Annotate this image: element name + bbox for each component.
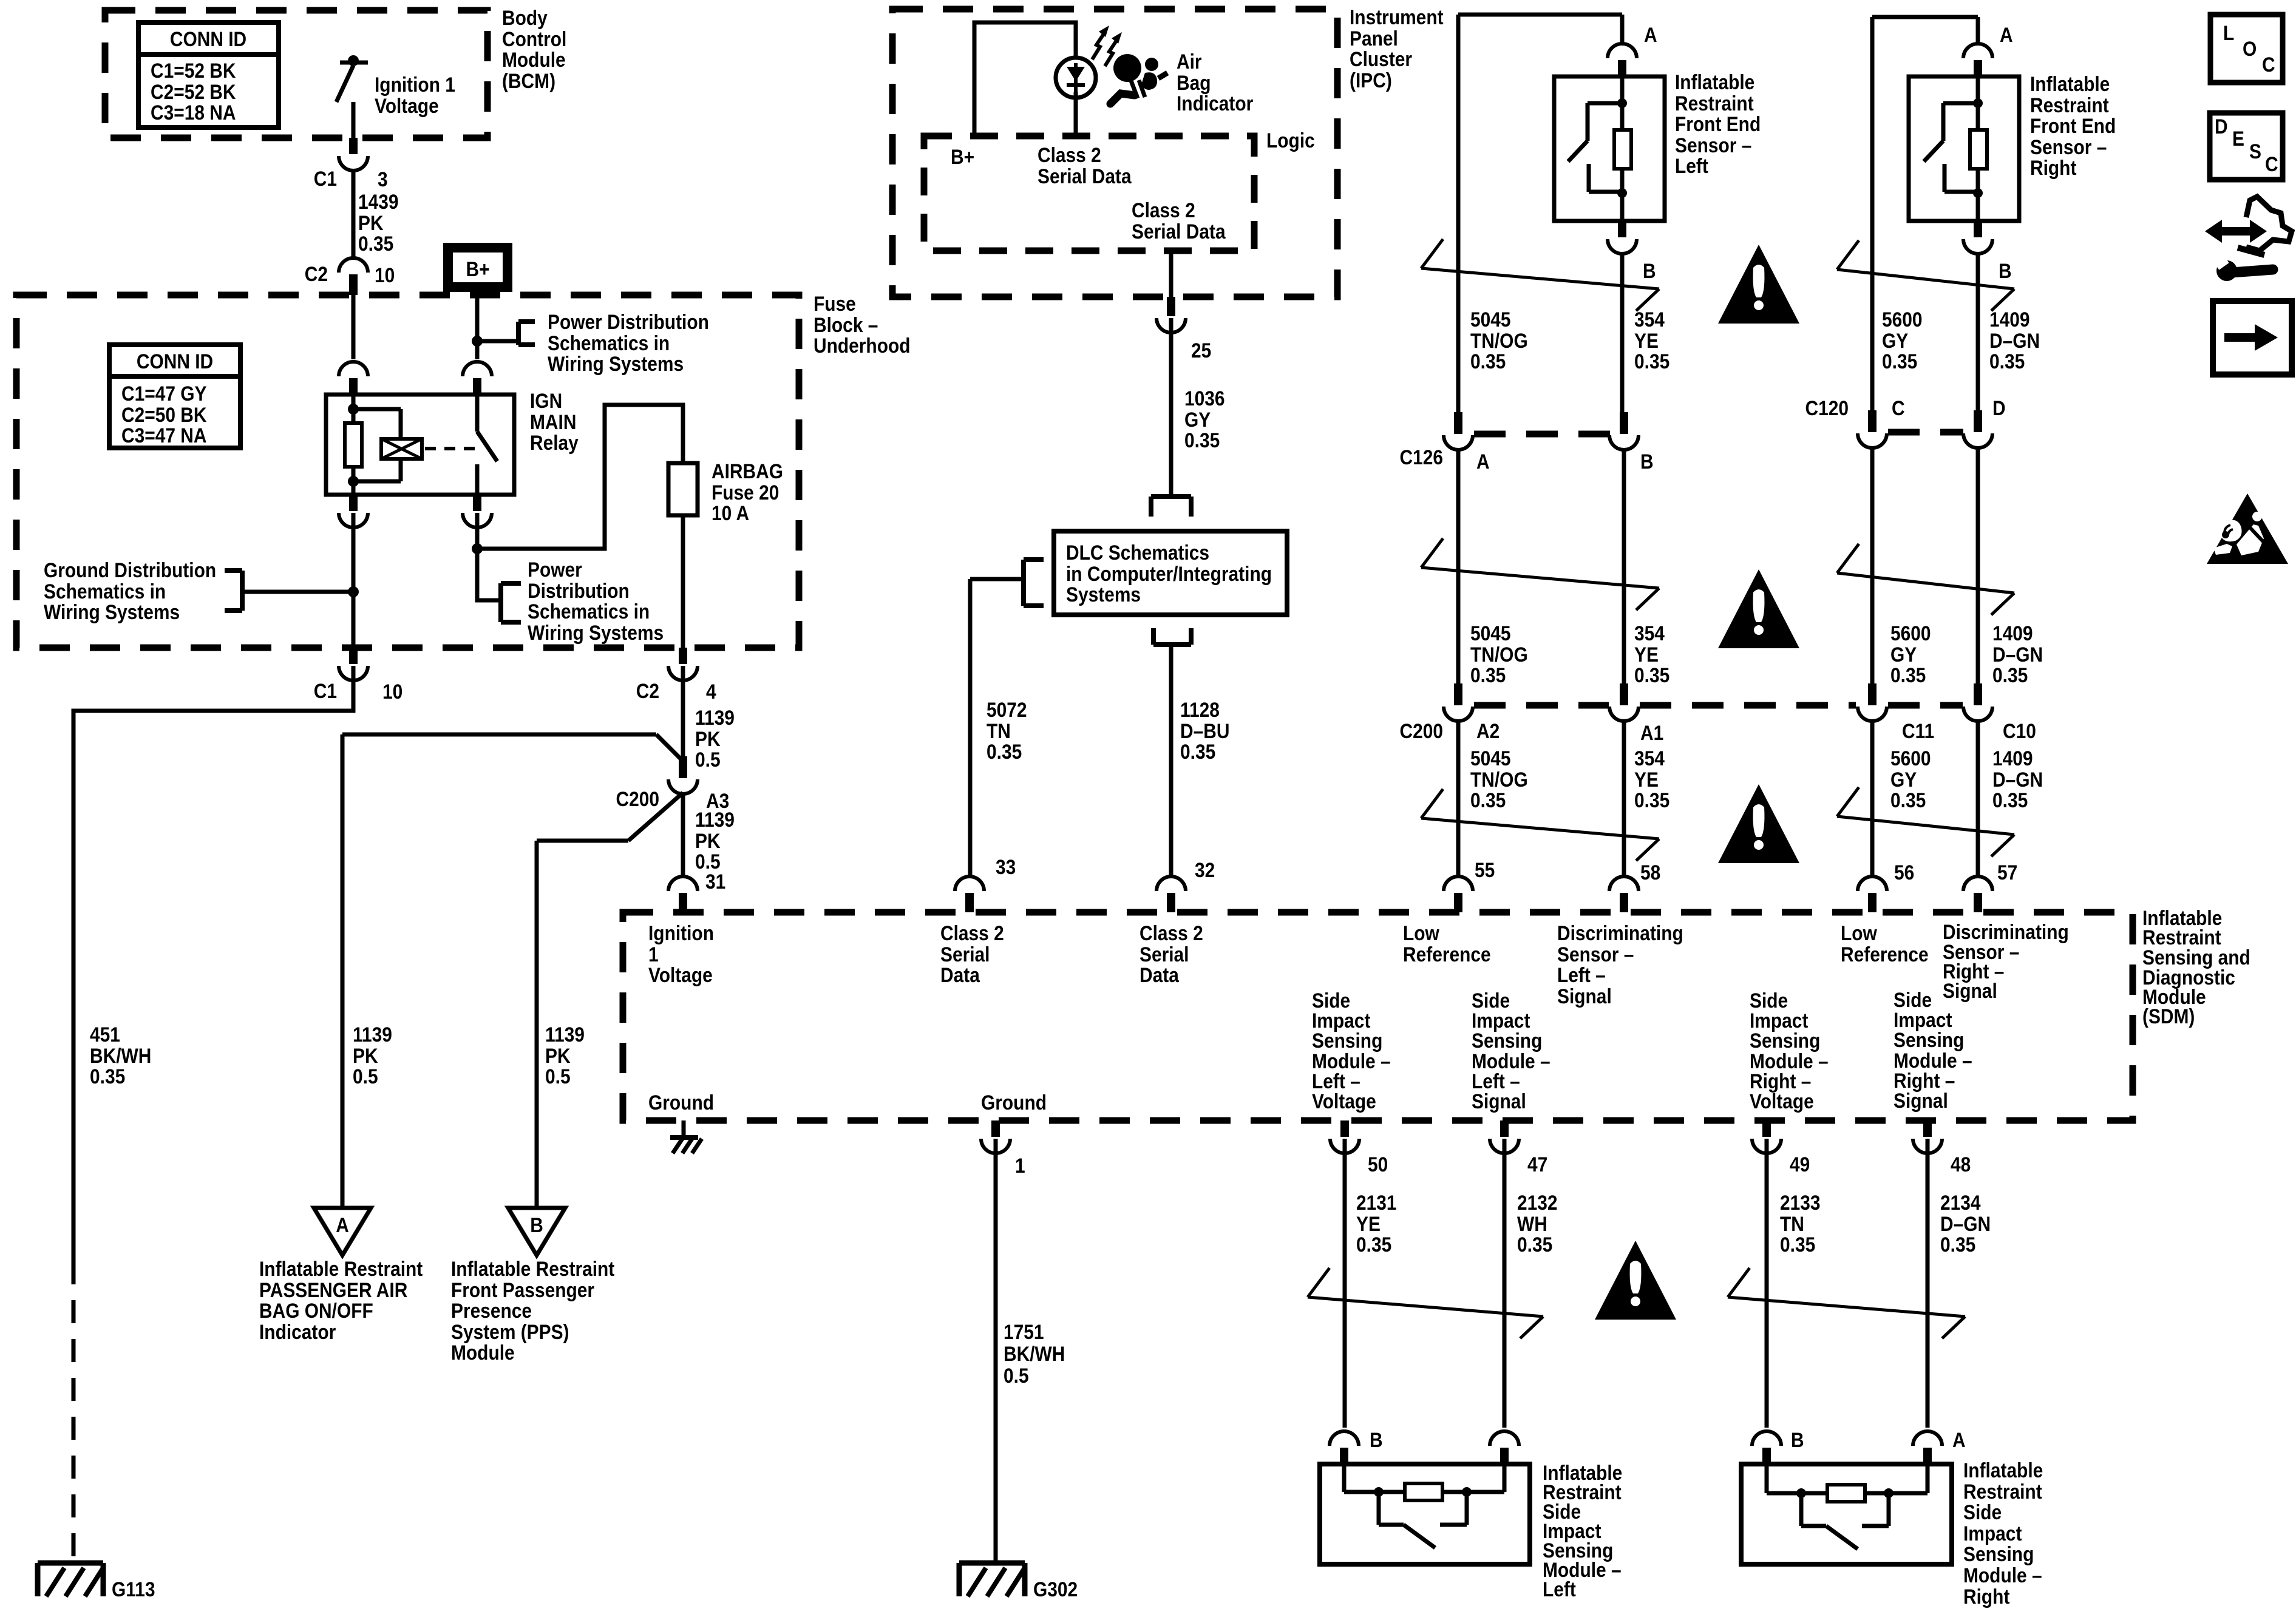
- value label 2132 WH 0.35: [1517, 1191, 1558, 1256]
- svg-text:Impact: Impact: [1963, 1522, 2022, 1545]
- relay switch contacts: [477, 395, 497, 495]
- svg-text:Power Distribution: Power Distribution: [548, 310, 709, 333]
- svg-text:in Computer/Integrating: in Computer/Integrating: [1066, 562, 1272, 585]
- svg-text:A: A: [2000, 23, 2013, 46]
- svg-text:Low: Low: [1841, 921, 1877, 944]
- svg-text:Cluster: Cluster: [1350, 47, 1412, 70]
- power symbol B+: [448, 248, 508, 287]
- value label 354 YE 0.35 (upper): [1634, 308, 1669, 373]
- label Air Bag Indicator: [1177, 50, 1253, 115]
- svg-text:Left: Left: [1543, 1578, 1576, 1601]
- value label 2133 TN 0.35: [1780, 1191, 1821, 1256]
- wire 1139 PK (pin4 to C200): [681, 666, 685, 760]
- svg-text:GY: GY: [1882, 329, 1908, 352]
- relay coil resistor: [345, 395, 362, 495]
- wire 5600 lower: [1870, 720, 1875, 878]
- svg-text:L: L: [2223, 21, 2234, 44]
- svg-text:C2=52 BK: C2=52 BK: [151, 80, 236, 103]
- svg-text:TN: TN: [987, 719, 1011, 742]
- svg-text:1139: 1139: [353, 1023, 392, 1046]
- table CONN ID (BCM): [138, 22, 279, 127]
- svg-text:Class 2: Class 2: [940, 921, 1004, 944]
- svg-text:System (PPS): System (PPS): [451, 1320, 569, 1343]
- pin label A2: [1476, 719, 1500, 742]
- svg-text:354: 354: [1634, 747, 1665, 770]
- pin label 31: [705, 870, 725, 893]
- wire right front sensor loop: [1872, 17, 1978, 415]
- svg-text:MAIN: MAIN: [530, 410, 576, 433]
- svg-text:Body: Body: [502, 6, 548, 29]
- connector SDM pin 48: [1913, 1120, 1942, 1153]
- svg-text:Restraint: Restraint: [1963, 1480, 2042, 1503]
- svg-text:(SDM): (SDM): [2142, 1005, 2195, 1028]
- svg-text:Bag: Bag: [1177, 71, 1211, 94]
- svg-text:C2: C2: [305, 262, 328, 285]
- svg-text:BAG ON/OFF: BAG ON/OFF: [259, 1299, 373, 1322]
- wire relay coil to C1-10: [352, 513, 356, 648]
- svg-text:48: 48: [1951, 1153, 1971, 1176]
- label AIRBAG Fuse 20 10 A: [712, 459, 783, 524]
- svg-text:2133: 2133: [1780, 1191, 1821, 1214]
- wire class2 inside IPC: [1169, 251, 1173, 297]
- svg-text:Restraint: Restraint: [2030, 93, 2109, 117]
- twisted pair marker (bottom right): [1728, 1268, 1965, 1338]
- twisted pair marker (left pair upper): [1421, 239, 1659, 311]
- svg-text:0.35: 0.35: [1470, 788, 1506, 812]
- svg-text:YE: YE: [1634, 768, 1659, 791]
- svg-text:Serial Data: Serial Data: [1132, 220, 1226, 243]
- label C126: [1399, 446, 1443, 469]
- twisted pair marker (right pair middle): [1837, 544, 2014, 615]
- svg-text:1409: 1409: [1989, 308, 2030, 331]
- svg-text:Restraint: Restraint: [1675, 92, 1754, 115]
- wire 1409 middle: [1976, 447, 1980, 688]
- svg-text:0.35: 0.35: [1780, 1233, 1815, 1256]
- wire SDM pin 49 to module: [1765, 1139, 1769, 1428]
- connector right sensor pin A: [1963, 44, 1992, 76]
- value label 1139 PK 0.5 (lower): [695, 808, 735, 873]
- svg-text:Air: Air: [1177, 50, 1202, 73]
- connector C1 pin 3 (BCM): [339, 138, 368, 171]
- svg-text:IGN: IGN: [530, 389, 562, 412]
- svg-text:31: 31: [705, 870, 725, 893]
- wire 451 BK/WH: [73, 666, 353, 1261]
- svg-text:Indicator: Indicator: [1177, 92, 1253, 115]
- connector relay switch bottom: [463, 495, 492, 527]
- pin label 49: [1790, 1153, 1810, 1176]
- svg-text:Voltage: Voltage: [648, 963, 713, 986]
- svg-text:Inflatable: Inflatable: [1963, 1459, 2043, 1482]
- svg-text:0.35: 0.35: [1180, 740, 1215, 763]
- svg-text:PK: PK: [358, 211, 384, 234]
- connector left sensor pin B: [1608, 221, 1637, 254]
- svg-text:0.35: 0.35: [1634, 350, 1669, 373]
- pin label B (left sensor): [1643, 259, 1656, 282]
- svg-text:Front End: Front End: [2030, 114, 2116, 137]
- svg-text:3: 3: [378, 168, 388, 191]
- connector IPC pin 25: [1156, 297, 1186, 333]
- connector C1 pin 10 (fuse block bottom): [339, 648, 368, 680]
- svg-text:C10: C10: [2003, 719, 2036, 742]
- connector C200 pin C10: [1963, 683, 1992, 721]
- wire 5600 middle: [1870, 447, 1875, 688]
- svg-text:G113: G113: [112, 1578, 155, 1601]
- svg-text:4: 4: [706, 680, 716, 703]
- svg-text:Ignition: Ignition: [648, 921, 714, 944]
- value label 1139 PK 0.5 (A): [353, 1023, 392, 1088]
- svg-text:D–BU: D–BU: [1180, 719, 1229, 742]
- label Class 2 Serial Data (lower): [1132, 198, 1226, 243]
- fuse F1 AIRBAG Fuse 20 10A: [668, 463, 698, 515]
- svg-text:TN/OG: TN/OG: [1470, 768, 1528, 791]
- value label 5045 TN/OG 0.35 (middle): [1470, 622, 1528, 686]
- pin function Side Impact Sensing Module Right Signal: [1894, 988, 1972, 1112]
- svg-text:Indicator: Indicator: [259, 1320, 336, 1343]
- svg-text:0.35: 0.35: [1882, 350, 1917, 373]
- svg-text:PK: PK: [545, 1044, 571, 1067]
- label Logic: [1266, 129, 1315, 152]
- connector SDM pin 31: [668, 876, 698, 912]
- svg-text:5600: 5600: [1890, 747, 1931, 770]
- wire C2-10 to relay: [352, 295, 356, 359]
- svg-text:A: A: [336, 1213, 349, 1236]
- pin label B (right module): [1791, 1428, 1804, 1451]
- connector row C200 (dashed): [1474, 702, 1963, 709]
- svg-text:TN/OG: TN/OG: [1470, 643, 1528, 666]
- value label 1139 PK 0.5 (upper): [695, 706, 735, 771]
- bracket power distribution (top): [518, 322, 535, 345]
- connector right sensor pin B: [1963, 221, 1992, 254]
- connector left module pin (right): [1490, 1431, 1519, 1464]
- connector left sensor pin A: [1608, 44, 1637, 76]
- label C200: [1399, 719, 1443, 742]
- wire SDM pin 50 to module: [1343, 1139, 1347, 1428]
- label Inflatable Restraint Side Impact Sensing Module - Left: [1543, 1461, 1622, 1601]
- svg-text:GY: GY: [1890, 643, 1917, 666]
- connector SDM pin 32: [1156, 876, 1186, 912]
- relay actuation dashed link: [425, 447, 475, 450]
- wire 1409 lower: [1976, 720, 1980, 878]
- svg-text:Inflatable: Inflatable: [1675, 70, 1754, 93]
- svg-text:Module: Module: [502, 48, 566, 71]
- svg-text:Front Passenger: Front Passenger: [451, 1278, 594, 1301]
- svg-text:YE: YE: [1634, 329, 1659, 352]
- svg-text:Side: Side: [1963, 1500, 2002, 1524]
- svg-text:1128: 1128: [1180, 698, 1220, 721]
- left sensor switch branch: [1568, 103, 1622, 192]
- svg-text:451: 451: [90, 1023, 120, 1046]
- svg-text:Systems: Systems: [1066, 583, 1141, 606]
- twisted pair marker (bottom left): [1308, 1268, 1543, 1338]
- svg-text:Reference: Reference: [1403, 943, 1491, 966]
- junction relay output: [472, 543, 483, 554]
- svg-text:33: 33: [996, 855, 1016, 878]
- svg-text:Class 2: Class 2: [1132, 198, 1195, 222]
- svg-text:B+: B+: [466, 257, 489, 280]
- svg-text:5045: 5045: [1470, 622, 1511, 645]
- svg-text:Right: Right: [1963, 1585, 2010, 1608]
- svg-text:BK/WH: BK/WH: [90, 1044, 151, 1067]
- connector C200 pin A2: [1444, 683, 1473, 721]
- svg-text:Sensor –: Sensor –: [2030, 135, 2107, 158]
- svg-text:AIRBAG: AIRBAG: [712, 459, 783, 483]
- icon airbag caution triangle: [2207, 493, 2288, 564]
- svg-text:Class 2: Class 2: [1140, 921, 1203, 944]
- svg-text:5072: 5072: [987, 698, 1027, 721]
- wire branch to PPS module: [537, 793, 683, 841]
- svg-text:TN: TN: [1780, 1212, 1804, 1235]
- connector SDM pin 49: [1752, 1120, 1781, 1153]
- module box Fuse Block - Underhood (dashed): [16, 295, 799, 648]
- wire to triangle B: [535, 841, 539, 1208]
- icon LOC box: [2210, 15, 2283, 83]
- svg-text:(IPC): (IPC): [1350, 69, 1392, 92]
- svg-text:Ground: Ground: [981, 1091, 1047, 1114]
- svg-text:10: 10: [375, 263, 395, 286]
- svg-text:1139: 1139: [695, 706, 735, 729]
- svg-text:32: 32: [1195, 858, 1215, 881]
- pin label D (C120): [1992, 396, 2006, 419]
- label Class 2 Serial Data (top): [1038, 143, 1132, 188]
- pin function Low Reference (55): [1403, 921, 1491, 966]
- svg-text:A1: A1: [1640, 721, 1663, 744]
- value label 1751 BK/WH 0.5: [1004, 1320, 1065, 1387]
- svg-text:Left –: Left –: [1557, 963, 1606, 986]
- svg-text:Sensor –: Sensor –: [1675, 134, 1751, 157]
- icon adjust/wrench (double arrow with hand and wrench): [2205, 197, 2292, 281]
- wire SDM pin 48 to module: [1926, 1139, 1930, 1428]
- svg-text:0.35: 0.35: [1470, 350, 1506, 373]
- svg-text:CONN ID: CONN ID: [170, 27, 246, 50]
- svg-text:GY: GY: [1890, 768, 1917, 791]
- svg-text:Voltage: Voltage: [1312, 1090, 1376, 1113]
- sensor box front end right: [1909, 76, 2019, 221]
- svg-text:D–GN: D–GN: [1940, 1212, 1991, 1235]
- svg-text:Wiring Systems: Wiring Systems: [528, 621, 664, 644]
- junction on B+ wire: [472, 336, 483, 347]
- svg-text:Signal: Signal: [1472, 1090, 1526, 1113]
- connector SDM pin 50: [1330, 1120, 1359, 1153]
- svg-text:D–GN: D–GN: [1992, 643, 2043, 666]
- pin label 25: [1191, 339, 1211, 362]
- svg-text:C1: C1: [314, 679, 337, 702]
- svg-text:Sensing: Sensing: [1963, 1542, 2034, 1565]
- svg-text:50: 50: [1368, 1153, 1388, 1176]
- module box side impact left: [1320, 1464, 1530, 1564]
- pin label C1 3: [314, 167, 388, 191]
- wire left front sensor loop: [1458, 15, 1622, 417]
- connector C126 pin B: [1609, 412, 1639, 450]
- svg-text:0.35: 0.35: [358, 232, 393, 255]
- pin label 47: [1527, 1153, 1547, 1176]
- icon DESC box: [2210, 113, 2283, 180]
- svg-text:1139: 1139: [695, 808, 735, 831]
- value label 5600 GY 0.35 (lower): [1890, 747, 1931, 812]
- svg-text:58: 58: [1640, 861, 1660, 884]
- warning triangle 1: [1718, 245, 1799, 324]
- svg-text:Sensing: Sensing: [1472, 1029, 1542, 1052]
- svg-text:Presence: Presence: [451, 1299, 532, 1322]
- connector right module pin B: [1752, 1431, 1781, 1464]
- svg-text:PASSENGER AIR: PASSENGER AIR: [259, 1278, 407, 1301]
- svg-text:5600: 5600: [1882, 308, 1923, 331]
- svg-text:1: 1: [648, 943, 659, 966]
- pin label 1: [1015, 1154, 1025, 1177]
- svg-text:C: C: [2265, 152, 2278, 175]
- pin function Ground (internal): [648, 1091, 714, 1114]
- svg-text:0.35: 0.35: [1890, 788, 1926, 812]
- svg-text:0.5: 0.5: [545, 1065, 571, 1088]
- twisted pair marker (left pair lower): [1421, 789, 1659, 861]
- value label 5045 TN/OG 0.35 (lower): [1470, 747, 1528, 812]
- pin label B (right sensor): [1999, 259, 2012, 282]
- svg-text:10: 10: [382, 680, 402, 703]
- pin function Side Impact Sensing Module Left Voltage: [1312, 989, 1391, 1113]
- svg-text:D–GN: D–GN: [1989, 329, 2040, 352]
- svg-text:B+: B+: [951, 145, 974, 168]
- sensor box front end left: [1554, 76, 1665, 221]
- connector C200 pin C11: [1858, 683, 1887, 721]
- svg-text:0.35: 0.35: [1634, 788, 1669, 812]
- wire branch to passenger airbag indicator: [342, 734, 683, 761]
- pin function Side Impact Sensing Module Right Voltage: [1750, 989, 1829, 1113]
- warning triangle 4: [1595, 1241, 1676, 1320]
- svg-text:354: 354: [1634, 308, 1665, 331]
- svg-text:Distribution: Distribution: [528, 579, 630, 602]
- pin label 32: [1195, 858, 1215, 881]
- right module switch branch: [1801, 1493, 1889, 1549]
- label Inflatable Restraint Side Impact Sensing Module - Right: [1963, 1459, 2043, 1608]
- svg-text:Panel: Panel: [1350, 27, 1398, 50]
- svg-text:C11: C11: [1902, 719, 1934, 742]
- svg-text:47: 47: [1527, 1153, 1547, 1176]
- pin label 55: [1475, 858, 1495, 881]
- svg-text:C1=47 GY: C1=47 GY: [121, 382, 207, 405]
- value label 1409 D-GN 0.35 (middle): [1992, 622, 2043, 686]
- svg-text:Signal: Signal: [1943, 979, 1997, 1002]
- value label 2134 D-GN 0.35: [1940, 1191, 1991, 1256]
- bracket ground distribution: [225, 571, 242, 611]
- svg-text:C2: C2: [636, 679, 659, 702]
- svg-text:Discriminating: Discriminating: [1557, 921, 1683, 944]
- svg-text:DLC Schematics: DLC Schematics: [1066, 541, 1209, 564]
- svg-text:1751: 1751: [1004, 1320, 1044, 1343]
- pin label C10: [2003, 719, 2036, 742]
- svg-text:0.35: 0.35: [987, 740, 1022, 763]
- value label 1409 D-GN 0.35 (lower): [1992, 747, 2043, 812]
- svg-text:1139: 1139: [545, 1023, 585, 1046]
- svg-text:Inflatable Restraint: Inflatable Restraint: [259, 1257, 423, 1280]
- connector C2 pin 10 (fuse block): [339, 258, 368, 295]
- connector row C126 (dashed): [1474, 431, 1610, 438]
- label G302: [1033, 1578, 1078, 1601]
- svg-text:56: 56: [1894, 861, 1914, 884]
- ground symbol (SDM internal): [670, 1120, 702, 1153]
- wire 1139 PK (C200 to SDM 31): [681, 793, 685, 878]
- relay solenoid (box with X): [381, 439, 422, 459]
- twisted pair marker (left pair middle): [1421, 538, 1659, 610]
- svg-text:1036: 1036: [1184, 387, 1225, 410]
- svg-text:B: B: [1791, 1428, 1804, 1451]
- svg-text:C200: C200: [1399, 719, 1443, 742]
- wire B+ to relay: [475, 292, 480, 359]
- svg-text:B: B: [1640, 450, 1654, 473]
- relay K1 IGN MAIN Relay box: [326, 395, 514, 495]
- svg-text:Left: Left: [1675, 154, 1708, 177]
- svg-text:Module –: Module –: [1963, 1564, 2042, 1587]
- svg-text:0.35: 0.35: [1184, 429, 1220, 452]
- svg-text:1: 1: [1015, 1154, 1025, 1177]
- svg-text:1409: 1409: [1992, 622, 2033, 645]
- pin function Ground (pin 1): [981, 1091, 1047, 1114]
- svg-text:Signal: Signal: [1894, 1089, 1948, 1112]
- connector SDM pin 55: [1444, 876, 1473, 912]
- svg-text:A: A: [1644, 23, 1657, 46]
- label IGN MAIN Relay: [530, 389, 579, 454]
- wire 1128 D-BU: [1169, 645, 1173, 878]
- svg-text:0.35: 0.35: [1940, 1233, 1975, 1256]
- svg-text:1439: 1439: [358, 190, 399, 213]
- pin label C (C120): [1892, 396, 1905, 419]
- svg-text:Block –: Block –: [813, 313, 878, 336]
- connector C2 pin 4 (fuse block bottom): [668, 648, 698, 680]
- pin label 33: [996, 855, 1016, 878]
- svg-text:Right: Right: [2030, 156, 2077, 179]
- off-page triangle A: [314, 1208, 371, 1255]
- connector row C120 (dashed): [1888, 429, 1963, 436]
- pin label 56: [1894, 861, 1914, 884]
- svg-text:Fuse 20: Fuse 20: [712, 481, 779, 504]
- left module resistor branch: [1344, 1464, 1504, 1500]
- wire to ground distribution ref: [242, 590, 353, 594]
- svg-text:Low: Low: [1403, 921, 1439, 944]
- value label 5072 TN 0.35: [987, 698, 1027, 763]
- svg-text:C2=50 BK: C2=50 BK: [121, 403, 206, 426]
- svg-text:BK/WH: BK/WH: [1004, 1342, 1065, 1365]
- svg-text:D: D: [2215, 115, 2228, 138]
- svg-text:C200: C200: [616, 787, 659, 810]
- pin label C2 10: [305, 262, 395, 286]
- connector left module pin B: [1330, 1431, 1359, 1464]
- connector right module pin A: [1913, 1431, 1942, 1464]
- right sensor resistor branch: [1970, 76, 1987, 221]
- pin label C200 A3: [616, 787, 729, 812]
- svg-text:0.35: 0.35: [1517, 1233, 1552, 1256]
- value label 1128 D-BU 0.35: [1180, 698, 1229, 763]
- svg-text:C126: C126: [1399, 446, 1443, 469]
- svg-text:TN/OG: TN/OG: [1470, 329, 1528, 352]
- wire to triangle A: [341, 734, 345, 1208]
- wire 1439 PK: [352, 171, 356, 258]
- pin label 57: [1997, 861, 2017, 884]
- pin function Side Impact Sensing Module Left Signal: [1472, 989, 1550, 1113]
- svg-text:B: B: [1370, 1428, 1383, 1451]
- svg-text:WH: WH: [1517, 1212, 1547, 1235]
- switch S1 Ignition 1 Voltage: [336, 55, 368, 102]
- svg-text:Wiring Systems: Wiring Systems: [548, 352, 684, 375]
- svg-text:Ignition 1: Ignition 1: [375, 73, 455, 96]
- svg-text:Schematics in: Schematics in: [528, 600, 650, 623]
- label Fuse Block - Underhood: [813, 292, 911, 357]
- connector SDM pin 1: [981, 1120, 1010, 1153]
- svg-text:Instrument: Instrument: [1350, 5, 1444, 29]
- svg-text:0.35: 0.35: [1890, 663, 1926, 686]
- svg-text:Power: Power: [528, 558, 582, 581]
- svg-text:0.35: 0.35: [1634, 663, 1669, 686]
- svg-text:Sensing: Sensing: [1750, 1029, 1820, 1052]
- connector relay coil top: [339, 362, 368, 395]
- svg-text:D: D: [1992, 396, 2006, 419]
